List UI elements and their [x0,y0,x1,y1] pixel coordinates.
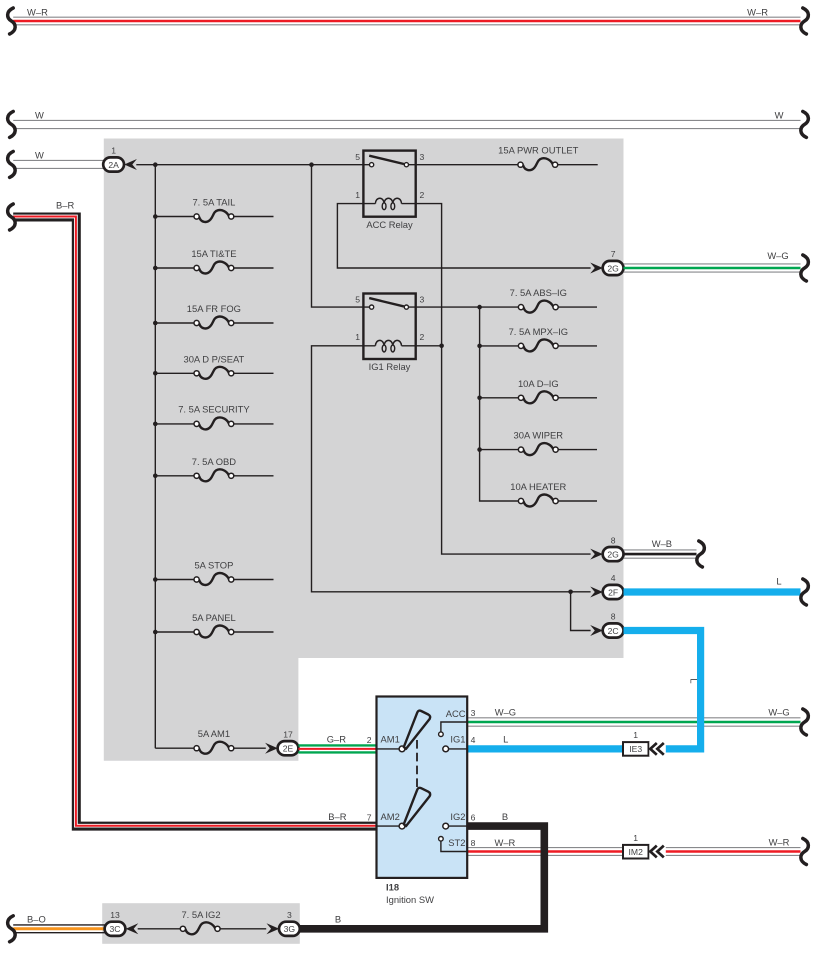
svg-text:1: 1 [633,730,638,740]
fuse 7.5A ABS-IG [518,301,597,313]
svg-text:13: 13 [110,910,120,920]
svg-text:7. 5A OBD: 7. 5A OBD [192,456,237,467]
svg-text:1: 1 [355,190,360,200]
ACC relay coil [363,198,415,210]
node: IG bus top [477,305,482,310]
female arrow at 3C [126,923,139,934]
node: bus at FR FOG [153,321,158,326]
svg-text:7. 5A IG2: 7. 5A IG2 [181,909,220,920]
connector 2G pin 7 (oval) [603,261,624,275]
I18 switch gang dashed link [416,740,418,788]
label B-R top [56,199,74,210]
pin 2 of I18 [367,735,372,745]
break symbol left, W stub [8,151,16,177]
label 7. 5A ABS-IG [510,287,567,298]
svg-text:10A HEATER: 10A HEATER [510,481,566,492]
svg-text:1: 1 [633,833,638,843]
relay ACC Relay (box) [363,151,415,217]
label AM1 [381,734,400,745]
fuse 7.5A SECURITY [155,417,273,429]
label W-R (ST2) [769,836,790,847]
svg-text:2G: 2G [607,550,619,560]
svg-text:7: 7 [611,249,616,259]
IG1 relay pin 1 [355,332,360,342]
pin 1 of IE3 [633,730,638,740]
fuse 10A D-IG [518,391,597,403]
wire W-G from ignition switch ACC terminal [467,718,800,726]
break symbol right, W [801,111,809,137]
pin 8 of 2C [611,612,616,622]
svg-text:ACC Relay: ACC Relay [366,219,413,230]
label 15A FR FOG [187,303,241,314]
node: bus at MPX-IG [477,344,482,349]
svg-text:ST2: ST2 [448,837,465,848]
label L (2F) [776,576,781,587]
svg-text:3: 3 [420,152,425,162]
label W right [775,109,784,120]
pin 1 of IM2 [633,833,638,843]
label 5A STOP [194,560,233,571]
connector 2E pin 17 (oval) [278,741,299,755]
male arrow at 2E pin17 [265,743,278,754]
svg-text:IM2: IM2 [629,847,644,857]
svg-text:8: 8 [611,535,616,545]
svg-text:2E: 2E [283,744,294,754]
I18 ST2 terminal [439,837,468,852]
svg-text:IG2: IG2 [450,811,465,822]
pin 1 of 2A [111,146,116,156]
double chevron at IM2 [649,844,666,859]
svg-text:7: 7 [367,812,372,822]
connector 2G pin 8 (oval) [603,547,624,561]
label I18 [386,882,399,893]
svg-text:W: W [35,109,44,120]
svg-text:7. 5A ABS–IG: 7. 5A ABS–IG [510,287,567,298]
label 7. 5A MPX-IG [509,326,568,337]
fuse 15A PWR OUTLET [416,158,598,170]
label W-G (at pin 3) [495,707,516,718]
break symbol right, W-R (ST2) [801,839,809,865]
break symbol left, B-R [8,204,16,230]
break symbol right, W-B [697,541,705,567]
connector 2A (oval) [103,157,124,171]
svg-text:17: 17 [283,729,293,739]
wire 3C to IG2 fuse [138,928,181,930]
svg-text:B: B [335,913,341,924]
label W-G (2G7) [767,250,788,261]
svg-text:I18: I18 [386,882,399,893]
svg-text:6: 6 [471,812,476,822]
relay IG1 Relay (box) [363,294,415,360]
svg-text:B–O: B–O [27,914,46,925]
svg-text:W–G: W–G [495,707,516,718]
label B (bottom) [335,913,341,924]
svg-text:W–R: W–R [27,6,48,17]
pin 4 of I18 [471,735,476,745]
fuse 15A FR FOG [155,317,273,329]
node: 2F/2C split [568,590,573,595]
wire L from 2F pin4 [624,588,801,595]
svg-text:W–R: W–R [769,836,790,847]
fuse 7.5A OBD [155,469,273,481]
svg-text:3C: 3C [110,924,121,934]
svg-text:2G: 2G [607,263,619,273]
label 7. 5A SECURITY [178,404,250,415]
node: IG1 relay feed tap [309,162,314,167]
svg-text:2: 2 [420,190,425,200]
break symbol right, W-G (ACC) [801,709,809,735]
wire W-R from ignition switch ST2 [467,848,800,856]
svg-text:3G: 3G [284,924,296,934]
node: AM1 bus tap on main feed [153,162,158,167]
svg-text:2A: 2A [108,160,119,170]
female arrow at 2A [124,159,137,170]
svg-text:L: L [688,678,699,683]
svg-text:5A STOP: 5A STOP [194,560,233,571]
fuse 5A AM1 [155,742,265,754]
node: bus at D P/SEAT [153,371,158,376]
label AM2 [381,811,400,822]
male arrow at 2F pin4 [590,587,603,598]
pin 3 of I18 [471,708,476,718]
label ACC Relay [366,219,413,230]
pin 7 of 2G [611,249,616,259]
label IG1 [450,734,465,745]
wire B-O from battery to 3C [13,925,105,933]
connector 2C pin 8 (oval) [603,623,624,637]
wire IG1 relay pin5 feed [312,165,364,307]
pin 8 of 2G [611,535,616,545]
label 30A D P/SEAT [184,353,245,364]
break symbol left, W-R [8,8,16,34]
label L (at pin 4) [503,734,508,745]
svg-text:10A D–IG: 10A D–IG [518,378,559,389]
label W-R right [747,6,768,17]
ACC relay pin 3 [420,152,425,162]
svg-text:IE3: IE3 [629,744,642,754]
svg-text:7. 5A MPX–IG: 7. 5A MPX–IG [509,326,568,337]
node: bus at WIPER [477,447,482,452]
node: bus at STOP [153,577,158,582]
svg-text:8: 8 [471,838,476,848]
ignition switch I18 (box) [377,697,468,878]
svg-text:4: 4 [471,735,476,745]
label Ignition SW [386,894,434,905]
svg-text:AM2: AM2 [381,811,400,822]
svg-text:2: 2 [367,735,372,745]
node: bus at TI&TE [153,266,158,271]
wire 2A to ACC relay pin 5 [136,164,363,166]
pin 3 of 3G [287,910,292,920]
male arrow at 2G pin7 [590,263,603,274]
label 10A D-IG [518,378,559,389]
connector 2F pin 4 (oval) [603,585,624,599]
break symbol right, W-G [801,255,809,281]
svg-text:W–R: W–R [494,837,515,848]
svg-text:W–G: W–G [768,707,789,718]
ACC relay switch contacts [363,156,415,167]
fuse 30A WIPER [518,443,597,455]
male arrow at 3G [267,923,280,934]
I18 AM1 terminal [377,746,405,752]
fuse 15A TI&TE [155,262,273,274]
ignition fuse block (gray, bottom) [102,903,300,944]
wire ACC relay pin2 to 2G pin8 (ground side) [416,204,591,554]
svg-text:IG1: IG1 [450,734,465,745]
IG1 relay pin 2 [420,332,425,342]
I18 IG2 terminal [443,823,467,829]
male arrow at 2C pin8 [590,625,603,636]
svg-text:7. 5A SECURITY: 7. 5A SECURITY [178,404,250,415]
label IG2 [450,811,465,822]
double chevron at IE3 [649,742,666,757]
label IG1 Relay [369,361,411,372]
svg-text:2: 2 [420,332,425,342]
label 5A AM1 [198,728,230,739]
svg-text:W–B: W–B [652,538,672,549]
svg-text:B–R: B–R [56,199,74,210]
pin 13 of 3C [110,910,120,920]
svg-text:5: 5 [355,294,360,304]
label 15A PWR OUTLET [498,145,579,156]
wire W (second battery line) [13,120,800,128]
label B-R (at AM2) [328,811,346,822]
svg-text:15A TI&TE: 15A TI&TE [191,248,236,259]
ACC relay pin 5 [355,152,360,162]
break symbol right, L (2F) [801,579,809,605]
label W left [35,109,44,120]
label 7. 5A TAIL [192,197,235,208]
label 5A PANEL [192,612,236,623]
wire IG fuse bus (right vertical) [480,307,519,501]
svg-text:2C: 2C [608,626,619,636]
svg-text:G–R: G–R [327,734,347,745]
IG1 relay pin 5 [355,294,360,304]
pin 17 of 2E [283,729,293,739]
svg-text:3: 3 [471,708,476,718]
svg-text:4: 4 [611,573,616,583]
fuse/relay panel block (gray) [104,139,624,761]
pin 6 of I18 [471,812,476,822]
wire G-R from 2E to ignition switch AM1 [298,745,376,752]
wire IG1 relay pin3 to IG fuse bus [416,306,519,308]
break symbol left, W [8,111,16,137]
svg-text:B: B [502,811,508,822]
fuse 5A PANEL [155,626,273,638]
wire W (stub into connector 2A) [13,160,103,168]
svg-text:B–R: B–R [328,811,346,822]
IG1 relay switch contacts [363,298,415,309]
I18 AM2 switch lever [404,788,430,826]
I18 IG1 terminal [443,746,467,752]
fuse 5A STOP [155,573,273,585]
label B (IG2) [502,811,508,822]
svg-text:1: 1 [355,332,360,342]
connector 3C (oval) [105,922,126,936]
ACC relay pin 2 [420,190,425,200]
connector IM2 [623,845,649,859]
label W-G (ACC) [768,707,789,718]
wire B (thick black): IG2 to 3G via bottom run [300,826,544,929]
svg-text:W–R: W–R [747,6,768,17]
I18 AM1 switch lever [404,711,430,749]
svg-text:1: 1 [111,146,116,156]
IG1 relay pin 3 [420,294,425,304]
svg-text:W: W [775,109,784,120]
node: bus at TAIL [153,214,158,219]
label G-R [327,734,347,745]
svg-text:IG1 Relay: IG1 Relay [369,361,411,372]
label W-R (at pin 8) [494,837,515,848]
wire IG1 relay pin1 to 2F pin4 [312,346,591,592]
svg-text:5A AM1: 5A AM1 [198,728,230,739]
svg-text:15A FR FOG: 15A FR FOG [187,303,241,314]
node: bus at D-IG [477,396,482,401]
male arrow at 2G pin8 [590,549,603,560]
fuse 10A HEATER [518,495,597,507]
svg-text:2F: 2F [608,587,618,597]
node: coil ground junction [439,344,444,349]
svg-text:30A D P/SEAT: 30A D P/SEAT [184,353,245,364]
svg-text:W–G: W–G [767,250,788,261]
svg-text:Ignition SW: Ignition SW [386,894,434,905]
label 30A WIPER [514,430,564,441]
label 15A TI&TE [191,248,236,259]
node: bus at SECURITY [153,422,158,427]
label 7. 5A OBD [192,456,237,467]
node: bus at OBD [153,474,158,479]
pin 4 of 2F [611,573,616,583]
label W (stub) [35,149,44,160]
svg-text:3: 3 [287,910,292,920]
wire W-B (ground) from 2G pin8 [624,550,697,558]
svg-text:30A WIPER: 30A WIPER [514,430,564,441]
fuse 7.5A MPX-IG [518,339,597,351]
connector IE3 [623,742,649,756]
wire L (blue): 2C pin8 to ignition switch IG1 via IE3 [467,631,700,749]
node: bus at PANEL [153,630,158,635]
label ST2 [448,837,465,848]
break symbol left, B-O [8,916,16,942]
label W-R left [27,6,48,17]
svg-text:L: L [776,576,781,587]
I18 AM2 terminal [377,823,405,829]
break symbol right, W-R [801,8,809,34]
wire ACC relay pin1 to 2G pin7 [337,204,590,268]
label W-B [652,538,672,549]
svg-text:7. 5A TAIL: 7. 5A TAIL [192,197,235,208]
label L (vertical, rotated) [688,678,699,683]
svg-text:8: 8 [611,612,616,622]
svg-text:5: 5 [355,152,360,162]
svg-text:5A PANEL: 5A PANEL [192,612,236,623]
wire W-R (top battery line) [13,17,800,25]
svg-text:W: W [35,149,44,160]
pin 8 of I18 [471,838,476,848]
wire IG1 relay pin2 to ground bus [416,345,442,347]
connector 3G (oval) [279,922,300,936]
wire B-R (from battery, left vertical run to AM2) [13,217,376,827]
label ACC [446,708,466,719]
fuse 7.5A TAIL [155,210,273,222]
svg-text:15A PWR OUTLET: 15A PWR OUTLET [498,145,579,156]
label B-O [27,914,46,925]
wire W-G from 2G pin7 [624,264,801,272]
ACC relay pin 1 [355,190,360,200]
IG1 relay coil [363,340,415,352]
svg-text:L: L [503,734,508,745]
fuse 7.5A IG2 [180,922,266,934]
svg-text:ACC: ACC [446,708,466,719]
I18 ACC terminal [439,722,468,737]
fuse 30A D P/SEAT [155,367,273,379]
wire branch to 2C pin8 [571,592,591,631]
pin 7 of I18 [367,812,372,822]
label 7. 5A IG2 [181,909,220,920]
label 10A HEATER [510,481,566,492]
wire AM1 fuse bus (left vertical) [154,165,156,749]
svg-text:3: 3 [420,294,425,304]
svg-text:AM1: AM1 [381,734,400,745]
